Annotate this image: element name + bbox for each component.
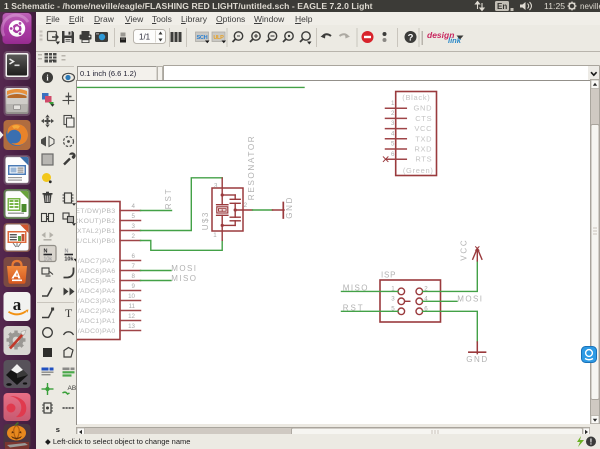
sheet spinbox 1/1 [134,30,166,44]
schematic canvas [77,81,590,424]
svg-text:MISO: MISO [343,283,369,292]
svg-text:8: 8 [132,273,136,280]
zoom in [250,32,260,42]
help [405,31,417,44]
row10: name (pressed) / value [39,246,56,262]
svg-text:6: 6 [132,253,136,260]
IC U1 pin names [70,208,115,335]
svg-text:10k: 10k [43,257,52,263]
svg-text:1: 1 [391,100,395,107]
svg-text:AB: AB [68,385,77,392]
status bar [36,434,600,449]
svg-text:F/ADC0)PA0: F/ADC0)PA0 [77,328,116,335]
row12: split / invoke [42,288,52,297]
svg-text:ULP: ULP [213,35,224,41]
ISP header body [380,280,441,322]
software center tile [4,257,31,287]
svg-text:2: 2 [391,110,395,117]
svg-text:2: 2 [132,233,136,240]
serial connector J1 body [396,92,437,176]
row7: delete / add [43,192,53,203]
svg-text:U$3: U$3 [201,211,210,230]
menu bar [34,12,600,25]
file cabinet tile [4,86,31,116]
wire MISO to ISP pin1 [342,290,399,292]
svg-text:N: N [44,249,48,255]
svg-text:CTS: CTS [415,114,432,123]
unconnected pin cross [383,157,388,162]
svg-text:10k: 10k [64,257,74,263]
amazon tile [4,292,31,321]
options dots [383,32,387,42]
zoom redraw [300,32,312,45]
second bar: coordinate display + command combo [34,52,600,86]
print [80,31,92,43]
svg-text:s: s [56,425,60,434]
svg-text:CKOUT)PB2: CKOUT)PB2 [77,218,116,225]
svg-text:RESONATOR: RESONATOR [247,135,256,201]
svg-text:11: 11 [129,303,136,310]
left tool palette [34,52,77,434]
svg-text:RST: RST [164,187,173,209]
row16: bus / net [42,368,54,376]
svg-text:TXD: TXD [415,134,432,143]
row4: mirror / rotate [41,137,54,147]
wire ISP pin6 to GND [423,311,478,342]
svg-text:O/ADC5)PA5: O/ADC5)PA5 [77,278,116,285]
system settings tile [4,326,31,355]
terminal tile [4,51,31,80]
svg-text:SCH: SCH [197,35,208,41]
svg-text:RXD: RXD [414,145,432,154]
export image [95,32,108,42]
zoom out [267,32,277,42]
wire pin 2 to resonator pin 1 [141,240,223,250]
resonator U$3 [212,178,253,240]
inkscape tile [4,360,31,388]
svg-text:10: 10 [128,293,135,300]
svg-text:En: En [497,2,507,11]
firefox tile [4,120,31,150]
modules [171,32,182,42]
svg-text:!: ! [590,438,593,447]
svg-text:4: 4 [391,130,395,137]
row13: wire / text [42,308,54,318]
wire ISP pin4 MOSI [423,300,457,302]
separator [37,302,74,304]
ground symbol right of resonator [273,203,285,219]
ubuntu bfb tile [2,13,31,44]
pumpkin tile (bottom, partially cut) [4,423,31,449]
svg-text:(Green): (Green) [403,166,434,175]
serial connector pin numbers [391,100,395,158]
pink app tile [4,393,31,421]
lo writer tile [4,155,31,185]
svg-text:?: ? [408,33,414,44]
white pip arrow for firefox [0,131,4,139]
wire MOSI from pin 7 [141,270,172,272]
svg-text:6: 6 [391,151,395,158]
open [48,32,61,45]
svg-text:13: 13 [128,323,135,330]
IC U1 pin stubs right side [120,211,141,331]
stop [362,31,374,43]
svg-text:5: 5 [391,141,395,148]
IC U1 ATtiny44 body [66,202,120,340]
svg-text:3: 3 [391,295,395,302]
zoom fit [233,32,243,42]
row17: junction / label [42,383,54,395]
resonator junction dots [221,193,237,227]
row9: gateswap (disabled) [42,232,54,241]
wire MISO from pin 8 [141,280,172,282]
vertical scrollbar [590,79,600,424]
svg-text:N: N [65,249,69,255]
svg-text:VCC: VCC [460,239,469,261]
svg-text:RTS: RTS [415,155,432,164]
wire top net [77,86,304,88]
svg-text:1/1: 1/1 [139,33,151,42]
IC U1 pin numbers [128,203,135,330]
lo calc tile [4,189,31,219]
svg-text:MOSI: MOSI [171,264,197,273]
lo impress tile [4,223,31,252]
svg-text:2: 2 [244,202,248,209]
wire resonator pin2 to GND [253,209,273,211]
separator [37,66,74,68]
serial connector pin labels [402,93,433,175]
svg-text:GND: GND [466,355,489,364]
wire RST from pin 4 [141,210,172,212]
svg-text:ISP: ISP [381,271,396,280]
row15: rect / polygon [43,348,52,357]
svg-text:7: 7 [132,263,136,270]
svg-text:VCC: VCC [414,124,432,133]
svg-text:B/ADC7)PA7: B/ADC7)PA7 [77,258,116,265]
svg-text:1/CLKI)PB0: 1/CLKI)PB0 [77,238,116,245]
svg-text:SET/DW)PB3: SET/DW)PB3 [77,208,116,215]
svg-text:MOSI: MOSI [457,295,483,304]
svg-text:12: 12 [128,313,135,320]
svg-text:1/ADC4)PA4: 1/ADC4)PA4 [77,288,116,295]
unity top panel [0,0,600,12]
ISP pin numbers [391,285,428,312]
row14: circle / arc [43,328,53,338]
svg-text:3: 3 [132,223,136,230]
svg-text:RST: RST [343,303,365,312]
vcc symbol [473,247,482,261]
row1: info / show [42,72,53,83]
svg-text:T: T [65,306,73,320]
horizontal scrollbar [76,424,590,434]
svg-text:I/ADC6)PA6: I/ADC6)PA6 [77,268,116,275]
svg-text:3: 3 [214,182,218,189]
redo (disabled) [340,34,351,39]
resonator pin numbers [213,182,247,239]
svg-text:5: 5 [132,213,136,220]
save [62,31,74,43]
grid button icon [45,53,57,63]
zoom select [283,32,293,42]
svg-text:GND: GND [414,104,433,113]
svg-text:0/ADC1)PA1: 0/ADC1)PA1 [77,318,116,325]
handle dots [38,54,42,56]
svg-text:1/ADC2)PA2: 1/ADC2)PA2 [77,308,116,315]
notification tab icon [581,346,598,363]
svg-text:3: 3 [391,120,395,127]
ISP header pads [398,288,423,315]
svg-text:a: a [13,295,22,314]
row11: smash / miter [42,268,53,276]
svg-text:/XTAL2)PB1: /XTAL2)PB1 [77,228,116,235]
sheet thumb icon [120,33,126,43]
svg-text:MISO: MISO [171,274,197,283]
row5: group / change [42,154,53,165]
svg-text:9: 9 [132,283,136,290]
row6: cut / paste [42,173,52,183]
serial connector pins [386,108,407,159]
unity launcher [0,12,36,449]
svg-text:(Black): (Black) [402,93,430,102]
main toolbar [34,25,600,52]
undo [321,34,332,39]
row8: pinswap / replace [42,214,54,222]
handle [40,31,43,43]
wire RST to ISP pin5 [342,310,399,312]
svg-text:1: 1 [213,232,217,239]
ULP button [212,32,226,43]
SCH button [196,32,210,43]
svg-text:4: 4 [132,203,136,210]
wire pin 3 to resonator pin 3 [141,178,223,231]
ground symbol bottom [469,342,486,354]
row3: move / copy [41,115,54,128]
wire ISP pin2 to VCC [423,261,478,292]
row2: display / mark [42,93,55,107]
svg-text:GND: GND [285,196,294,219]
svg-text:0/ADC3)PA3: 0/ADC3)PA3 [77,298,116,305]
row18: attribute / dots [42,403,53,413]
